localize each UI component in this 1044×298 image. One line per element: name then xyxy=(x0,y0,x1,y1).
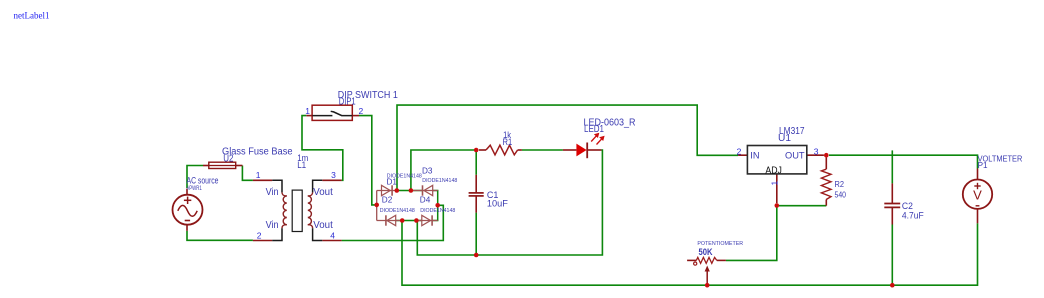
svg-text:DIODE1N4148: DIODE1N4148 xyxy=(387,174,422,180)
svg-text:DIODE1N4148: DIODE1N4148 xyxy=(422,178,457,184)
svg-text:U1: U1 xyxy=(778,133,791,144)
svg-text:3: 3 xyxy=(814,146,819,156)
svg-text:1: 1 xyxy=(305,106,310,116)
svg-text:4.7uF: 4.7uF xyxy=(902,210,924,221)
svg-text:D4: D4 xyxy=(420,195,431,205)
svg-text:Vout: Vout xyxy=(313,187,333,198)
svg-text:U2: U2 xyxy=(223,154,234,165)
svg-text:10uF: 10uF xyxy=(487,199,508,210)
svg-text:ADJ: ADJ xyxy=(765,165,782,176)
svg-text:50K: 50K xyxy=(699,247,713,257)
svg-text:DIODE1N4148: DIODE1N4148 xyxy=(380,208,415,214)
svg-text:P1: P1 xyxy=(978,161,988,170)
svg-text:Vin: Vin xyxy=(266,187,279,198)
svg-text:#PWR1: #PWR1 xyxy=(187,185,202,192)
svg-text:LED1: LED1 xyxy=(584,124,604,135)
svg-text:3: 3 xyxy=(331,170,336,180)
svg-text:D2: D2 xyxy=(382,195,393,205)
svg-text:IN: IN xyxy=(750,150,759,161)
svg-text:OUT: OUT xyxy=(785,150,805,161)
svg-text:2: 2 xyxy=(359,106,364,116)
svg-text:AC source: AC source xyxy=(187,176,219,186)
svg-text:1: 1 xyxy=(256,170,261,180)
svg-text:4: 4 xyxy=(330,230,335,240)
svg-text:2: 2 xyxy=(737,146,742,156)
svg-text:DIODE1N4148: DIODE1N4148 xyxy=(420,208,455,214)
svg-text:Vin: Vin xyxy=(266,220,279,231)
svg-text:netLabel1: netLabel1 xyxy=(14,12,50,22)
svg-text:1: 1 xyxy=(769,181,779,186)
svg-text:Vout: Vout xyxy=(313,220,333,231)
svg-text:L1: L1 xyxy=(297,160,306,171)
svg-text:R1: R1 xyxy=(503,137,513,147)
svg-text:540: 540 xyxy=(835,190,847,199)
svg-text:2: 2 xyxy=(257,231,262,241)
svg-text:D3: D3 xyxy=(422,166,433,176)
svg-text:R2: R2 xyxy=(835,180,845,189)
svg-text:V: V xyxy=(973,188,982,202)
svg-text:DIP1: DIP1 xyxy=(339,97,356,108)
